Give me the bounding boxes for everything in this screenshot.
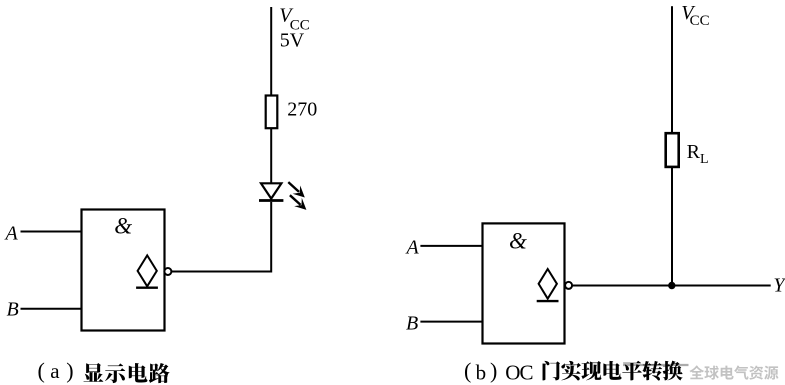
svg-text:A: A bbox=[405, 237, 420, 259]
resistor RL bbox=[666, 133, 679, 167]
LED light arrow 1 bbox=[288, 182, 305, 197]
gate U1 box (AND open-collector, left) bbox=[82, 210, 165, 331]
wire VCC to resistor (right) bbox=[671, 6, 673, 134]
caption (b) char 现 bbox=[581, 361, 601, 380]
wire LED to gate output corner bbox=[171, 202, 271, 272]
input wire B (left) bbox=[21, 308, 82, 310]
watermark strike line (behind caption) bbox=[623, 364, 689, 366]
power label VCC 5V (left) bbox=[279, 5, 310, 52]
junction node dot bbox=[668, 282, 675, 289]
wire VCC to resistor (left) bbox=[270, 7, 272, 97]
svg-text:): ) bbox=[490, 358, 497, 383]
watermark char 资 bbox=[749, 366, 763, 380]
caption (b) char 转 bbox=[642, 361, 662, 381]
caption (a) char 电 bbox=[129, 363, 148, 383]
resistor R1 270 bbox=[266, 96, 278, 129]
watermark char 球 bbox=[704, 366, 718, 380]
svg-text:CC: CC bbox=[690, 13, 710, 29]
watermark char 电 bbox=[721, 366, 734, 380]
svg-text:&: & bbox=[114, 214, 132, 239]
input wire A (left) bbox=[21, 231, 82, 233]
caption (b) char 电 bbox=[603, 361, 621, 380]
caption (b) char 门 bbox=[543, 361, 561, 381]
input wire B (right) bbox=[420, 321, 482, 323]
svg-text:&: & bbox=[509, 229, 527, 254]
svg-text:B: B bbox=[7, 298, 19, 320]
gate U2 open-collector diamond symbol bbox=[539, 269, 557, 299]
gate U2 box (AND open-collector, right) bbox=[483, 223, 565, 343]
caption (a) latin part bbox=[38, 358, 74, 383]
caption (b) char 平 bbox=[622, 361, 642, 381]
svg-text:A: A bbox=[4, 223, 19, 245]
wire resistor to junction bbox=[671, 167, 673, 287]
caption (a) char 路 bbox=[149, 363, 170, 383]
svg-text:R: R bbox=[687, 141, 701, 163]
svg-text:b: b bbox=[476, 360, 487, 384]
LED D1 cathode bar bbox=[259, 199, 283, 202]
caption (b) char 换 bbox=[663, 361, 683, 381]
svg-text:C: C bbox=[520, 361, 534, 385]
watermark char 气 bbox=[734, 366, 748, 380]
svg-text:B: B bbox=[406, 313, 418, 335]
caption (a) char 显 bbox=[83, 363, 103, 382]
caption (a) char 示 bbox=[105, 363, 125, 383]
svg-text:5V: 5V bbox=[280, 30, 305, 52]
svg-text:): ) bbox=[66, 358, 73, 383]
wire resistor to LED bbox=[270, 128, 272, 184]
svg-text:270: 270 bbox=[287, 99, 317, 121]
watermark char 全 bbox=[689, 365, 704, 379]
power label VCC (right) bbox=[681, 2, 709, 29]
LED D1 triangle bbox=[261, 183, 281, 198]
svg-text:O: O bbox=[505, 361, 520, 385]
gate U2 open-collector underline bbox=[537, 300, 559, 302]
label RL bbox=[687, 141, 709, 167]
output wire to Y bbox=[572, 285, 771, 287]
svg-text:L: L bbox=[700, 152, 709, 167]
gate U1 open-collector diamond symbol bbox=[138, 255, 157, 286]
caption (b) latin part bbox=[464, 358, 534, 385]
gate U1 inversion bubble bbox=[164, 268, 171, 275]
gate U2 inversion bubble bbox=[565, 282, 572, 289]
svg-text:(: ( bbox=[464, 358, 471, 383]
gate U1 open-collector underline bbox=[136, 287, 158, 289]
LED light arrow 2 bbox=[290, 195, 307, 210]
svg-text:Y: Y bbox=[773, 275, 785, 297]
svg-text:(: ( bbox=[38, 358, 45, 383]
svg-text:a: a bbox=[50, 359, 60, 383]
caption (b) char 实 bbox=[561, 361, 581, 381]
watermark char 源 bbox=[764, 366, 778, 380]
input wire A (right) bbox=[420, 245, 482, 247]
